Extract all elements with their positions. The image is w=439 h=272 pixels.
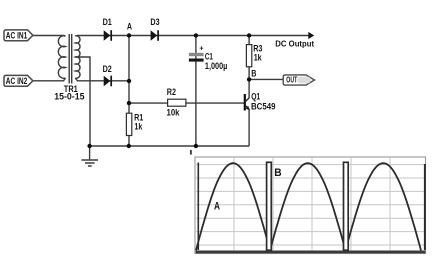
svg-text:D2: D2 (103, 64, 112, 74)
svg-text:10k: 10k (167, 108, 180, 118)
svg-text:D1: D1 (103, 17, 112, 27)
svg-text:B: B (274, 167, 281, 179)
svg-text:R2: R2 (167, 87, 176, 97)
svg-text:DC Output: DC Output (275, 39, 314, 49)
svg-text:+: + (199, 43, 204, 52)
svg-text:A: A (127, 22, 133, 32)
svg-text:1k: 1k (134, 121, 142, 131)
svg-text:1,000µ: 1,000µ (205, 61, 228, 71)
svg-text:1k: 1k (254, 52, 262, 62)
svg-text:AC IN1: AC IN1 (6, 30, 28, 40)
svg-text:C1: C1 (205, 51, 213, 61)
svg-text:15-0-15: 15-0-15 (54, 92, 84, 102)
svg-text:AC IN2: AC IN2 (6, 76, 28, 86)
svg-text:B: B (251, 68, 256, 78)
svg-text:BC549: BC549 (251, 101, 276, 111)
svg-text:Q1: Q1 (251, 92, 260, 102)
svg-text:D3: D3 (150, 17, 159, 27)
svg-text:OUT: OUT (286, 76, 297, 85)
svg-text:A: A (214, 200, 220, 212)
